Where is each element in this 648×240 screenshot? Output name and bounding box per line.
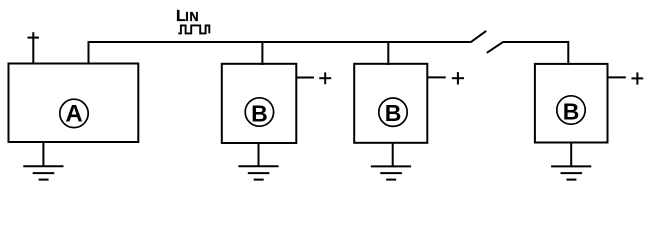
svg-text:IN: IN: [185, 10, 199, 24]
V+ terminal of block B3: [608, 72, 644, 84]
node B3 label circle: [557, 96, 585, 124]
wire: bus drop to first block B: [261, 42, 263, 65]
svg-text:B: B: [385, 100, 402, 126]
block B3: [535, 64, 608, 143]
wire: bus drop to third block B: [567, 41, 569, 65]
node A label circle: [60, 99, 88, 127]
ground of block B1: [238, 143, 278, 180]
ground of block A: [23, 142, 63, 180]
V+ terminal of block B1: [296, 72, 331, 84]
V+ terminal of block B2: [427, 72, 464, 84]
switch S1 (open, in LIN bus): [471, 31, 503, 53]
block A: [9, 64, 139, 143]
ground of block B3: [551, 143, 591, 180]
node B2 label circle: [379, 98, 407, 126]
wire: bus drop to block A: [88, 41, 90, 64]
wire: bus drop to second block B: [387, 42, 389, 65]
V+ terminal of block A: [28, 32, 40, 63]
node B1 label circle: [245, 98, 273, 126]
block B2: [354, 64, 427, 143]
wire: LIN bus, right segment after switch: [503, 41, 569, 43]
block B1: [222, 64, 296, 143]
wire: LIN bus, left segment: [89, 41, 471, 43]
ground of block B2: [371, 143, 411, 180]
svg-text:B: B: [563, 99, 580, 125]
node LIN: pulse waveform symbol: [178, 25, 209, 33]
node LIN: net name text: [176, 8, 199, 25]
svg-text:B: B: [251, 100, 268, 126]
svg-text:A: A: [65, 101, 82, 128]
